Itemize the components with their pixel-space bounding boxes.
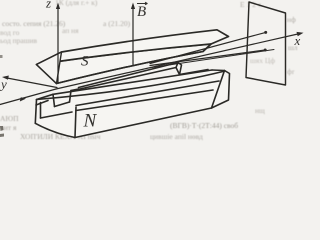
N channel body fill	[35, 70, 229, 138]
svg-text:x: x	[294, 33, 301, 48]
magnet pole S: wedge front slant face	[37, 44, 212, 84]
magnet pole N: U left-end face: outer left edge	[35, 100, 36, 124]
arrowhead beam entry	[20, 97, 26, 101]
magnet pole S: wedge top face	[37, 30, 229, 65]
N U rim rear (left end)	[71, 89, 79, 91]
arrowhead z	[56, 3, 60, 10]
arrowhead y	[2, 76, 9, 80]
svg-text:ап ня: ап ня	[62, 26, 79, 35]
N rim right end edge	[212, 69, 225, 72]
svg-text:АЮП: АЮП	[0, 114, 19, 123]
svg-text:N: N	[83, 111, 98, 132]
ghost bleed-through text layer	[0, 0, 298, 141]
dark smudge bottom-left edge	[0, 126, 4, 137]
extra lower beam trace	[152, 50, 274, 68]
svg-text:y: y	[0, 77, 7, 92]
N rear wall right end face	[176, 63, 182, 75]
N notch bottom	[55, 102, 70, 107]
svg-text:фr: фr	[287, 67, 295, 76]
beam dot lower	[264, 49, 267, 52]
x-axis beam line	[56, 34, 300, 90]
beam to upper dot	[150, 32, 266, 63]
svg-text:нщ: нщ	[255, 106, 265, 115]
N wall inner vertical (left end)	[40, 103, 42, 119]
beam to lower dot	[150, 50, 265, 66]
B vector line	[132, 6, 134, 65]
z-axis	[57, 6, 59, 83]
svg-text:шях Цф: шях Цф	[250, 56, 275, 65]
N groove floor far edge	[180, 70, 209, 75]
screen	[246, 2, 286, 85]
N slab bottom-front length edge	[75, 108, 212, 138]
N notch right edge	[70, 91, 72, 103]
dark mark left edge mid	[0, 55, 3, 58]
svg-text:цившіе апil нөвд: цившіе апil нөвд	[150, 132, 203, 141]
beam entry segment	[0, 89, 56, 105]
N front wall/slab right end face	[212, 71, 230, 109]
N notch left edge	[53, 94, 55, 106]
N U rim front (left end)	[37, 94, 54, 99]
svg-text:B: B	[137, 4, 146, 20]
paper background	[0, 0, 305, 143]
N front wall rim front length edge	[37, 71, 226, 100]
knife edge	[57, 44, 212, 84]
beam dot upper	[264, 31, 267, 34]
N wall/slab junction length edge	[76, 90, 213, 111]
arrowhead B	[131, 3, 135, 10]
svg-text:z: z	[45, 0, 51, 11]
svg-text:состо. сепия (21.26): состо. сепия (21.26)	[2, 19, 66, 28]
N slab top-left strip edge	[41, 112, 73, 118]
N rear bar fill	[71, 63, 182, 92]
svg-text:(ВГВ)·Т·(2Т:44) своб: (ВГВ)·Т·(2Т:44) своб	[170, 121, 238, 130]
svg-text:ьод прашив: ьод прашив	[0, 36, 38, 45]
svg-text:а (21.20): а (21.20)	[103, 19, 131, 28]
N rear wall top-rear length edge	[79, 63, 179, 88]
N rear wall top-front length edge	[71, 68, 176, 92]
N front wall rim rear length edge	[53, 70, 212, 94]
N rim inner parallel line	[36, 101, 48, 106]
svg-text:S: S	[81, 54, 89, 70]
svg-text:1К (для г.+ к): 1К (для г.+ к)	[55, 0, 98, 7]
y-axis	[5, 78, 57, 88]
N slab top-front length edge	[76, 81, 219, 106]
magnet pole S: wedge left end face	[37, 52, 62, 84]
N end face bottom edge	[35, 123, 75, 137]
vector arrow over B	[137, 2, 148, 5]
N slab front-left vertical edge	[75, 107, 76, 138]
svg-text:нф: нф	[287, 15, 296, 24]
arrowhead x	[297, 32, 304, 36]
